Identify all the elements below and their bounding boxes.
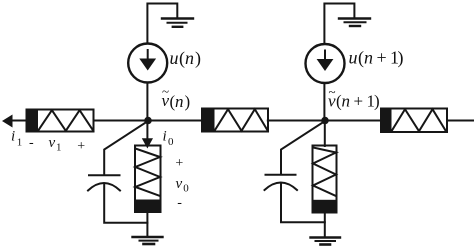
left shunt box zigzag (135, 149, 160, 197)
svg-text:+: + (175, 156, 183, 171)
svg-text:): ) (398, 48, 404, 69)
resistor R2 black band (202, 109, 215, 132)
nonlinear element box (right shunt) (313, 146, 337, 213)
left shunt box black band (135, 200, 161, 213)
svg-text:0: 0 (168, 136, 174, 148)
nonlinear element box (left shunt) (135, 146, 161, 213)
port arrow i1 (left-pointing filled arrowhead) (2, 115, 13, 128)
svg-text:+: + (377, 48, 387, 68)
svg-text:u: u (170, 48, 179, 68)
resistor R3 black band (381, 109, 392, 133)
ground (top left) (162, 17, 193, 19)
wire: right box bottom to ground (324, 213, 326, 238)
node v(n+1) junction dot (321, 117, 329, 125)
current source U1 arrow (147, 50, 149, 61)
svg-text:+: + (354, 92, 364, 111)
svg-text:-: - (177, 196, 182, 211)
current source U1 circle u(n) (128, 44, 167, 83)
svg-text:~: ~ (329, 84, 336, 99)
right shunt box zigzag (313, 148, 336, 197)
svg-text:n: n (342, 92, 351, 111)
svg-text:u: u (349, 48, 358, 68)
resistor R1 zigzag (38, 110, 93, 131)
svg-text:+: + (77, 139, 85, 154)
capacitor C1 curved bottom plate (88, 183, 120, 191)
svg-text:n: n (175, 92, 184, 111)
resistor R2 zigzag (215, 109, 268, 131)
svg-text:0: 0 (183, 183, 189, 195)
wire: R1 to node v(n) to resistor R2 (94, 120, 203, 122)
svg-text:v: v (49, 135, 56, 151)
resistor R3 box (series element at right) (381, 109, 447, 133)
wire: node v(n) diagonal to capacitor C1 (104, 121, 148, 174)
resistor R3 zigzag (392, 109, 447, 131)
resistor R1 box (series element with black band at left) (27, 110, 94, 132)
svg-text:~: ~ (162, 84, 169, 99)
resistor R1 black band (27, 110, 39, 132)
node v(n) junction dot (144, 117, 152, 125)
wire: U1 top to upper-left ground (147, 4, 177, 44)
ground (top right) (339, 17, 370, 19)
wire: R2 to node v(n+1) to resistor R3 (268, 120, 382, 122)
svg-text:i: i (11, 129, 15, 145)
svg-text:-: - (29, 136, 34, 151)
current source U2 arrow (324, 51, 326, 62)
svg-text:v: v (176, 176, 183, 192)
wire: left arrow lead to resistor R1 (11, 120, 27, 122)
ground (bottom left) (133, 236, 163, 238)
svg-text:): ) (195, 48, 201, 69)
current arrow i0 on node v(n) branch (146, 122, 148, 140)
right shunt box black band (313, 200, 337, 213)
wire: capacitor C2 bottom to junction (281, 184, 325, 223)
wire: node v(n+1) diagonal to capacitor C2 (281, 121, 325, 174)
wire: R3 to right edge (447, 120, 474, 122)
wire: left box bottom to ground (146, 212, 148, 237)
svg-text:n: n (185, 48, 194, 68)
wire: node v(n+1) down to right box (324, 122, 326, 146)
svg-text:): ) (374, 92, 380, 111)
wire: node v(n) up to current source U1 (146, 83, 148, 121)
capacitor C1 top plate (89, 174, 120, 176)
svg-text:): ) (185, 92, 191, 111)
capacitor C2 top plate (266, 174, 296, 176)
svg-text:1: 1 (56, 142, 62, 154)
resistor R2 box (series element between nodes) (202, 109, 268, 132)
ground (bottom right) (311, 236, 341, 238)
svg-text:i: i (163, 129, 167, 145)
svg-text:n: n (364, 48, 373, 68)
capacitor C2 curved bottom plate (265, 183, 298, 191)
wire: capacitor C1 bottom to junction (104, 184, 147, 223)
svg-text:1: 1 (17, 137, 23, 149)
current source U2 circle u(n+1) (306, 44, 345, 83)
wire: node v(n+1) up to current source U2 (323, 83, 325, 121)
wire: U2 top to upper-right ground (324, 4, 354, 45)
